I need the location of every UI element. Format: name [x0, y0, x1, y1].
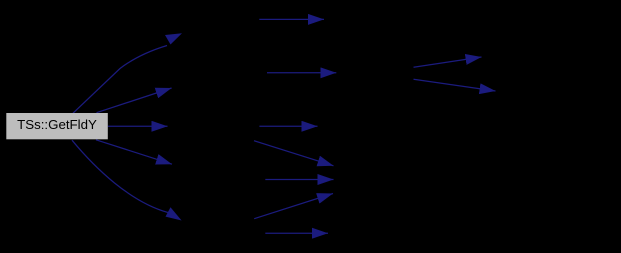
svg-text:TSs::GetFldY: TSs::GetFldY	[17, 117, 97, 132]
